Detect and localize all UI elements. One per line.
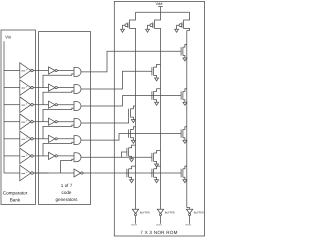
wire comparator U4 input [4, 121, 20, 123]
inverter A2 [49, 84, 56, 91]
NMOS Q8 (row6,bit2) drain [129, 145, 136, 148]
ground NMOS Q6 (row5,bit2) [131, 140, 135, 143]
Vin rail [3, 41, 5, 173]
wire comparator U5 output [33, 138, 48, 140]
wire AND G2 lower input tap [43, 91, 74, 105]
wire word line W6 [81, 156, 152, 158]
svg-text:Comparator: Comparator [3, 190, 28, 195]
block: 7 X 3 NOR ROM [114, 1, 204, 236]
Vdd terminal tick [158, 6, 163, 8]
wire AND G5 lower input tap [43, 142, 74, 156]
svg-text:code: code [62, 190, 72, 195]
wire comparator U5 input [4, 138, 20, 140]
NMOS Q6 (row5,bit2) drain [130, 127, 135, 130]
AND gate G6 [74, 153, 81, 162]
PMOS P3 gate bar [181, 22, 183, 28]
svg-text:Bank: Bank [10, 197, 21, 202]
wire PMOS P1 gate [123, 25, 126, 29]
NMOS Q4 (row3,bit0) drain [183, 89, 187, 92]
ground NMOS Q1 (row1,bit0) [183, 58, 187, 61]
wire comparator U7 input [4, 172, 20, 174]
wire Vdd drop [160, 7, 162, 13]
NMOS Q5 (row4,bit2) channel [129, 109, 131, 117]
ground PMOS P3 gate [175, 29, 179, 32]
AND gate G4 [74, 119, 81, 128]
inverter A3 bubble [55, 104, 57, 106]
ground NMOS Q4 (row3,bit0) [183, 102, 187, 105]
NMOS Q7 (row5,bit0) channel [182, 129, 184, 137]
NMOS Q9 (row6,bit1) channel [153, 153, 155, 161]
NMOS Q9 (row6,bit1) drain [154, 150, 161, 153]
svg-text:generators: generators [56, 197, 79, 202]
bit line B1 [135, 31, 137, 210]
bit line B2 [160, 31, 162, 210]
NMOS Q12 (row7,bit0) gate bar [180, 169, 182, 177]
inverter A6 [49, 152, 56, 159]
wire comparator U3 input [4, 104, 20, 106]
inverter A7 [74, 169, 81, 177]
comparator U5 output bubble [31, 138, 33, 140]
NMOS Q10 (row7,bit2) gate bar [126, 169, 128, 177]
inverter A5 bubble [55, 138, 57, 140]
NMOS Q11 (row7,bit1) drain [154, 166, 161, 169]
wire PMOS P3 drain jog [187, 30, 190, 32]
block: 1 of 7 code generators [39, 32, 91, 205]
ground NMOS Q7 (row5,bit0) [183, 140, 187, 143]
wire AND G6 lower input tap [61, 159, 75, 173]
comparator U4 [20, 114, 31, 130]
comparator U2 output bubble [31, 86, 33, 88]
svg-text:BUFFER: BUFFER [194, 212, 204, 215]
NMOS Q3 (row3,bit1) channel [153, 91, 155, 99]
wire comparator U4 output [33, 121, 48, 123]
comparator U7 [20, 165, 31, 181]
wire buffer U8 output [135, 216, 137, 224]
NMOS Q12 (row7,bit0) channel [182, 169, 184, 177]
svg-text:1 of 7: 1 of 7 [61, 183, 73, 188]
load PMOS P1 [130, 12, 136, 30]
wire word line W1 [81, 51, 181, 72]
comparator U6 [20, 148, 31, 164]
NMOS Q6 (row5,bit2) gate bar [128, 129, 130, 137]
NMOS Q5 (row4,bit2) source [130, 117, 133, 120]
inverter A4 [49, 118, 56, 125]
AND gate G3 [74, 102, 81, 111]
inverter A6 bubble [55, 155, 57, 157]
AND gate G2 [74, 84, 81, 93]
inverter A7 bubble [81, 172, 83, 174]
load PMOS P2 [155, 12, 161, 30]
wire inverter A6 to AND G6 [57, 155, 74, 157]
NMOS Q5 (row4,bit2) gate bar [128, 109, 130, 117]
wire comparator U6 output [33, 155, 48, 157]
NMOS Q8 (row6,bit2) gate bar [126, 148, 128, 156]
ground NMOS Q2 (row2,bit1) [155, 78, 159, 81]
wire inverter A1 to AND G1 [57, 70, 74, 72]
svg-text:Vdd: Vdd [156, 2, 163, 6]
ground NMOS Q5 (row4,bit2) [131, 120, 135, 123]
NMOS Q11 (row7,bit1) gate bar [151, 169, 153, 177]
wire comparator U2 output [33, 87, 48, 89]
NMOS Q1 (row1,bit0) source [183, 56, 185, 59]
wire AND G4 lower input tap [43, 125, 74, 139]
NMOS Q6 (row5,bit2) channel [129, 129, 131, 137]
svg-text:OUT0: OUT0 [185, 224, 191, 227]
comparator U2 [20, 80, 31, 96]
PMOS P2 gate bar [152, 22, 154, 28]
ground NMOS Q9 (row6,bit1) [155, 164, 159, 167]
NMOS Q11 (row7,bit1) source [154, 177, 157, 180]
comparator U1 [20, 63, 31, 79]
wire comparator U6 input [4, 155, 20, 157]
wire buffer U9 output [160, 216, 162, 224]
NMOS Q6 (row5,bit2) source [130, 138, 133, 141]
NMOS Q7 (row5,bit0) gate bar [180, 129, 182, 137]
NMOS Q9 (row6,bit1) gate bar [151, 153, 153, 161]
buffer U8 bubble [135, 214, 137, 216]
NMOS Q11 (row7,bit1) channel [153, 169, 155, 177]
ground NMOS Q8 (row6,bit2) [130, 159, 134, 162]
comparator U3 output bubble [31, 104, 33, 106]
wire comparator U7 to inverter A7 [33, 172, 74, 174]
NMOS Q12 (row7,bit0) source [183, 177, 185, 180]
wire comparator U1 input [4, 70, 20, 72]
PMOS P1 gate bar [127, 22, 129, 28]
wire inverter A3 to AND G3 [57, 104, 74, 106]
svg-text:Vin: Vin [5, 35, 12, 40]
svg-text:OUT2: OUT2 [131, 224, 137, 227]
svg-text:OUT1: OUT1 [156, 224, 162, 227]
comparator U4 output bubble [31, 121, 33, 123]
NMOS Q7 (row5,bit0) source [183, 138, 185, 141]
block: Comparator Bank [1, 30, 36, 205]
wire comparator U2 input [4, 87, 20, 89]
wire inverter A5 to AND G5 [57, 138, 74, 140]
ground NMOS Q11 (row7,bit1) [155, 180, 159, 183]
bit line B3 [187, 31, 190, 210]
buffer U8 triangle [132, 209, 138, 213]
comparator U1 output bubble [31, 69, 33, 71]
wire inverter A2 to AND G2 [57, 87, 74, 89]
NMOS Q10 (row7,bit2) drain [129, 166, 136, 169]
Vdd rail [136, 11, 190, 13]
NMOS Q1 (row1,bit0) channel [182, 47, 184, 55]
buffer U10 triangle [186, 209, 192, 213]
wire word line W6 branch riser [121, 152, 127, 157]
NMOS Q2 (row2,bit1) drain [154, 64, 161, 67]
NMOS Q8 (row6,bit2) source [129, 156, 132, 159]
wire comparator U3 output [33, 104, 48, 106]
svg-text:BUFFER: BUFFER [140, 212, 150, 215]
wire comparator U7 output [33, 172, 48, 174]
NMOS Q2 (row2,bit1) gate bar [151, 67, 153, 75]
NMOS Q2 (row2,bit1) channel [153, 67, 155, 75]
NMOS Q5 (row4,bit2) drain [130, 106, 135, 109]
NMOS Q12 (row7,bit0) drain [183, 166, 187, 169]
wire PMOS P2 gate [148, 25, 151, 29]
NMOS Q7 (row5,bit0) drain [183, 127, 187, 130]
inverter A1 bubble [55, 69, 57, 71]
NMOS Q1 (row1,bit0) drain [183, 44, 187, 47]
NMOS Q3 (row3,bit1) source [154, 100, 157, 103]
comparator U5 [20, 131, 31, 147]
ground NMOS Q3 (row3,bit1) [155, 102, 159, 105]
wire word line W4 [81, 117, 129, 123]
wire PMOS P3 gate [177, 25, 180, 29]
PMOS P2 gate bubble [150, 24, 153, 27]
ground NMOS Q10 (row7,bit2) [130, 180, 134, 183]
comparator U7 output bubble [31, 172, 33, 174]
inverter A4 bubble [55, 121, 57, 123]
svg-text:BUFFER: BUFFER [165, 212, 175, 215]
NMOS Q4 (row3,bit0) source [183, 100, 185, 103]
wire AND G1 lower input tap [43, 74, 74, 88]
NMOS Q4 (row3,bit0) channel [182, 91, 184, 99]
inverter A3 [49, 101, 56, 108]
buffer U10 bubble [189, 214, 191, 216]
inverter A2 bubble [55, 87, 57, 89]
buffer U9 bubble [160, 214, 162, 216]
buffer U9 triangle [157, 209, 163, 213]
wire inverter A4 to AND G4 [57, 121, 74, 123]
ground PMOS P1 gate [121, 29, 125, 32]
PMOS P3 gate bubble [179, 24, 182, 27]
NMOS Q3 (row3,bit1) gate bar [151, 91, 153, 99]
NMOS Q10 (row7,bit2) source [129, 177, 132, 180]
inverter A1 [49, 67, 56, 74]
wire word line W7 [83, 172, 181, 174]
AND gate G1 [74, 67, 81, 76]
inverter A5 [49, 135, 56, 142]
NMOS Q9 (row6,bit1) source [154, 161, 157, 164]
NMOS Q3 (row3,bit1) drain [154, 89, 161, 92]
load PMOS P3 [184, 12, 190, 30]
wire comparator U1 output [33, 70, 48, 72]
ground NMOS Q12 (row7,bit0) [183, 180, 187, 183]
AND gate G5 [74, 136, 81, 145]
comparator U3 [20, 97, 31, 113]
NMOS Q10 (row7,bit2) channel [128, 169, 130, 177]
PMOS P1 gate bubble [125, 24, 128, 27]
wire word line W2 [81, 71, 152, 89]
svg-text:7 X 3 NOR ROM: 7 X 3 NOR ROM [140, 230, 177, 235]
NMOS Q8 (row6,bit2) channel [128, 148, 130, 156]
wire buffer U10 output [189, 216, 191, 224]
wire AND G3 lower input tap [43, 108, 74, 122]
NMOS Q1 (row1,bit0) gate bar [180, 47, 182, 55]
NMOS Q4 (row3,bit0) gate bar [180, 91, 182, 99]
wire word line W3 [81, 96, 181, 106]
comparator U6 output bubble [31, 155, 33, 157]
ground PMOS P2 gate [146, 29, 150, 32]
wire word line W5 [81, 134, 181, 141]
NMOS Q2 (row2,bit1) source [154, 76, 157, 79]
